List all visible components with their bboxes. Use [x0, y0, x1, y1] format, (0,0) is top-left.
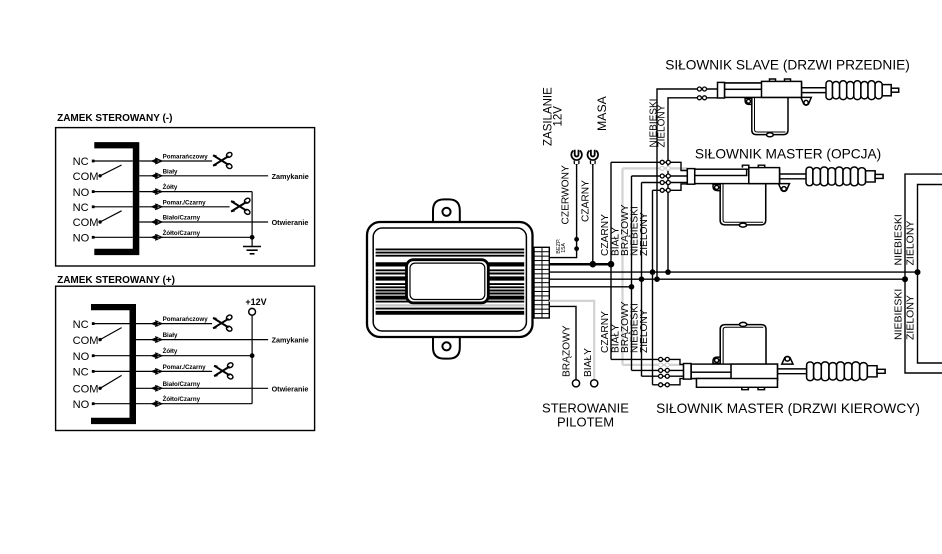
- svg-text:SIŁOWNIK MASTER (OPCJA): SIŁOWNIK MASTER (OPCJA): [695, 147, 881, 162]
- zamek box 2 scissors cut 1: [213, 314, 233, 332]
- fuse BEZP. 15A: [574, 237, 579, 242]
- zamek box 2 connector bracket: [91, 304, 136, 424]
- bullet connectors master kierowcy: [659, 357, 663, 361]
- zamek box 1 connector bracket: [94, 142, 139, 255]
- wire ZIELONY right doors: [918, 185, 942, 364]
- svg-text:Żółto/Czarny: Żółto/Czarny: [163, 396, 201, 403]
- svg-text:Biało/Czarny: Biało/Czarny: [163, 215, 201, 222]
- zamek box 2 wire Pomar./Czarny: [136, 370, 212, 372]
- zamek box 2 wire Pomarańczowy: [136, 323, 212, 325]
- svg-text:+12V: +12V: [245, 297, 266, 307]
- svg-text:COM: COM: [73, 171, 99, 183]
- module label plate: [407, 260, 489, 303]
- wire ZIELONY slave feed: [668, 98, 718, 272]
- svg-text:ZAMEK STEROWANY (-): ZAMEK STEROWANY (-): [57, 113, 172, 124]
- zamek box 1 switch arm 1: [100, 165, 122, 176]
- svg-text:SIŁOWNIK MASTER (DRZWI KIEROWC: SIŁOWNIK MASTER (DRZWI KIEROWCY): [656, 401, 920, 416]
- terminal ring BIALY: [591, 380, 598, 387]
- zamek box 1 scissors cut 2: [231, 197, 251, 215]
- actuator body MASTER OPCJA: [687, 165, 883, 227]
- zamek box 1 wire Żółto/Czarny: [139, 236, 252, 238]
- svg-text:Biało/Czarny: Biało/Czarny: [163, 381, 201, 388]
- wire BRAZOWY vertical: [631, 176, 633, 370]
- svg-text:NIEBIESKI: NIEBIESKI: [893, 214, 905, 265]
- svg-text:Pomarańczowy: Pomarańczowy: [163, 316, 209, 323]
- svg-text:Pomar./Czarny: Pomar./Czarny: [163, 364, 207, 371]
- svg-text:Otwieranie: Otwieranie: [272, 218, 309, 227]
- svg-text:ZIELONY: ZIELONY: [905, 295, 917, 340]
- zamek box 1 frame: [56, 128, 315, 266]
- wire NIEBIESKI slave feed: [657, 89, 718, 279]
- svg-text:NC: NC: [73, 367, 89, 379]
- wire BIALY to master opcja (gray): [623, 167, 688, 169]
- wire czerwony with fuse: [549, 164, 576, 258]
- svg-text:CZARNY: CZARNY: [581, 180, 592, 222]
- zamek box 2 wire Biało/Czarny: [136, 387, 268, 389]
- svg-text:NO: NO: [73, 351, 90, 363]
- svg-text:Pomarańczowy: Pomarańczowy: [163, 154, 209, 161]
- terminal fork CZARNY (masa): [587, 151, 598, 160]
- svg-text:BIAŁY: BIAŁY: [583, 348, 594, 377]
- svg-text:Biały: Biały: [163, 332, 178, 339]
- zamek box 1 ground bus wire: [251, 192, 253, 247]
- wire BIALY to master kierowcy (gray): [623, 364, 684, 366]
- wires to master opcja: [611, 162, 687, 170]
- svg-text:STEROWANIE: STEROWANIE: [542, 401, 629, 416]
- svg-text:Zamykanie: Zamykanie: [272, 172, 309, 181]
- node +12V terminal: [249, 308, 256, 315]
- svg-text:ZIELONY: ZIELONY: [657, 104, 668, 147]
- module mounting tab bottom: [433, 336, 460, 359]
- terminal fork CZERWONY (supply +12V): [571, 151, 582, 160]
- svg-text:ZIELONY: ZIELONY: [639, 309, 650, 353]
- bullet connectors slave: [697, 87, 701, 91]
- actuator body SLAVE: [718, 79, 899, 137]
- svg-text:COM: COM: [73, 384, 99, 396]
- wire bus CZARNY (thick): [549, 263, 611, 266]
- svg-text:COM: COM: [73, 217, 99, 229]
- zamek box 2 frame: [56, 286, 315, 430]
- svg-text:NC: NC: [73, 202, 89, 214]
- svg-text:Pomar./Czarny: Pomar./Czarny: [163, 199, 207, 206]
- wire bus BRAZOWY: [549, 286, 631, 288]
- svg-text:NIEBIESKI: NIEBIESKI: [893, 289, 905, 340]
- wire BIALY vertical (gray): [621, 168, 623, 365]
- wire CZARNY vertical: [610, 162, 612, 359]
- zamek box 2 switch arm 1: [100, 328, 122, 340]
- wire NIEBIESKI vertical: [641, 183, 643, 377]
- wire czarny fork drop: [592, 164, 594, 264]
- terminal ring BRAZOWY: [572, 380, 579, 387]
- zamek box 1 wire Pomar./Czarny: [139, 206, 229, 208]
- svg-text:MASA: MASA: [595, 95, 609, 131]
- svg-text:NO: NO: [73, 399, 90, 411]
- zamek box 1 switch arm 2: [100, 211, 122, 222]
- actuator body MASTER KIEROWCY: [684, 322, 886, 389]
- zamek box 2 +12V bus wire: [251, 315, 253, 404]
- svg-text:NO: NO: [73, 233, 90, 245]
- svg-text:15A: 15A: [561, 243, 567, 253]
- svg-text:ZAMEK STEROWANY (+): ZAMEK STEROWANY (+): [57, 275, 175, 286]
- svg-text:Żółty: Żółty: [163, 184, 178, 191]
- bullet connectors master opcja: [660, 160, 664, 164]
- svg-text:Żółto/Czarny: Żółto/Czarny: [163, 230, 201, 237]
- svg-text:NC: NC: [73, 319, 89, 331]
- wire NIEBIESKI right doors: [905, 174, 942, 373]
- zamek box 2 junction: [250, 353, 255, 358]
- svg-text:Zamykanie: Zamykanie: [272, 336, 309, 345]
- svg-text:PILOTEM: PILOTEM: [557, 415, 614, 430]
- module case outline: [367, 222, 533, 337]
- module cooling ribs: [376, 248, 525, 250]
- svg-text:Biały: Biały: [163, 168, 178, 175]
- wire bus NIEBIESKI: [549, 278, 905, 280]
- zamek box 1 wire Biało/Czarny: [139, 221, 268, 223]
- svg-text:CZARNY: CZARNY: [600, 214, 611, 256]
- svg-text:ZIELONY: ZIELONY: [905, 221, 917, 266]
- svg-text:BRĄZOWY: BRĄZOWY: [562, 325, 573, 377]
- zamek box 2 switch arm 2: [100, 375, 122, 388]
- module connector block: [534, 247, 549, 318]
- svg-text:NC: NC: [73, 156, 89, 168]
- svg-text:CZERWONY: CZERWONY: [561, 165, 572, 224]
- svg-text:Otwieranie: Otwieranie: [272, 384, 309, 393]
- wire BIALY sterowanie (gray): [549, 301, 594, 380]
- svg-text:COM: COM: [73, 335, 99, 347]
- ground: [243, 246, 261, 248]
- zamek box 2 wire Biały: [136, 339, 268, 341]
- zamek box 1 junction: [250, 235, 255, 240]
- zamek box 2 scissors cut 2: [214, 362, 234, 380]
- wire bus ZIELONY: [549, 271, 917, 273]
- module mounting tab top: [433, 199, 460, 223]
- zamek box 1 scissors cut 1: [213, 151, 233, 169]
- svg-text:12V: 12V: [553, 106, 565, 127]
- wires to master kierowcy: [611, 359, 684, 364]
- zamek box 2 wire Żółto/Czarny: [136, 403, 252, 405]
- zamek box 2 wire Żółty: [136, 355, 252, 357]
- zamek box 1 wire Biały: [139, 175, 268, 177]
- svg-text:ZIELONY: ZIELONY: [639, 212, 650, 256]
- svg-text:CZARNY: CZARNY: [600, 311, 611, 353]
- svg-text:SIŁOWNIK SLAVE (DRZWI PRZEDNIE: SIŁOWNIK SLAVE (DRZWI PRZEDNIE): [665, 58, 910, 73]
- zamek box 1 wire Żółty: [139, 191, 252, 193]
- wire BRAZOWY sterowanie: [549, 306, 576, 379]
- wire ZIELONY vertical: [652, 190, 654, 384]
- zamek box 1 wire Pomarańczowy: [139, 160, 212, 162]
- svg-text:Żółty: Żółty: [163, 348, 178, 355]
- svg-text:NO: NO: [73, 187, 90, 199]
